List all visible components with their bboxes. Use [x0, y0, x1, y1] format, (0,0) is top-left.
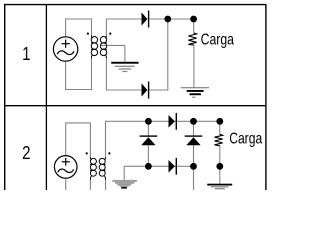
svg-text:Carga: Carga [229, 131, 262, 148]
wire: AC source V1 bottom lead [65, 61, 67, 89]
diode D1 (top, row 1) [142, 11, 150, 28]
ground (load) row 1 [181, 87, 209, 98]
wire: AC source V2 top lead [65, 123, 67, 155]
table column divider [45, 5, 47, 190]
wire: primary top rail row 2 [65, 122, 91, 124]
junction dot top rail middle [190, 118, 197, 125]
secondary winding loops [100, 37, 106, 43]
diode D5 (vertical left, row 2) [140, 135, 158, 145]
ground (middle rail) row 2 [112, 180, 136, 189]
T2 polarity dot left [86, 152, 88, 154]
wire: primary bottom lead down (cropped) [89, 179, 91, 190]
diode D4 (middle rail, row 2) [169, 158, 178, 175]
wire: load middle lead row 2 [219, 146, 221, 167]
wire: primary bottom rail [65, 89, 92, 91]
wire: top rail row 2 [105, 120, 220, 122]
node A junction dot [164, 16, 171, 23]
ground (load) row 2 [207, 184, 232, 190]
wire: secondary top lead up [105, 121, 107, 157]
wire: secondary bottom lead down (cropped) [105, 179, 107, 190]
T2 polarity dot right [108, 152, 110, 154]
junction dot middle rail right [190, 163, 197, 170]
wire: D2 cathode run right [149, 89, 168, 91]
wire: secondary top lead up [105, 19, 107, 36]
svg-text:1: 1 [22, 43, 30, 64]
wire: D1 cathode to node A [149, 18, 193, 20]
AC source V1 row 1 [53, 37, 77, 61]
wire: D6 bottom stub [193, 145, 195, 166]
diode D3 (top rail, row 2) [169, 113, 178, 130]
svg-text:Carga: Carga [201, 32, 235, 49]
junction dot top rail right (load) [216, 118, 223, 125]
secondary winding loops [99, 158, 105, 164]
wire: load top lead [193, 19, 195, 33]
wire: center tap horizontal [101, 44, 125, 46]
wire: middle rail row 2 [124, 165, 193, 167]
wire: D5 bottom stub [147, 145, 149, 166]
wire: load bottom lead to ground [193, 45, 195, 88]
wire: AC source V1 top lead [65, 19, 67, 37]
wire: drop below middle rail right dot (cropped) [193, 166, 195, 190]
diode D6 (vertical right, row 2) [185, 135, 203, 145]
T1 polarity dot left [87, 33, 89, 35]
wire: primary top drop to T1 [91, 19, 93, 36]
wire: load ground lead row 2 [219, 166, 221, 183]
T1 polarity dot right [109, 33, 111, 35]
wire: secondary bottom rail to D2 [106, 89, 142, 91]
AC source V2 row 2 [54, 156, 77, 179]
junction dot middle rail left [145, 163, 152, 170]
diode D2 (bottom, row 1) [142, 82, 150, 99]
resistor Carga row 1 [188, 33, 196, 45]
wire: riser from D2 to node A [167, 19, 169, 91]
wire: AC source V2 bottom lead [65, 178, 67, 190]
wire: secondary bottom lead down [105, 58, 107, 90]
junction dot load bottom row 2 [216, 163, 223, 170]
junction dot top rail left [145, 118, 152, 125]
resistor Carga row 2 [215, 134, 223, 146]
svg-text:2: 2 [22, 142, 30, 163]
wire: secondary top rail to D1 [106, 18, 142, 20]
ground (center tap) row 1 [111, 62, 138, 72]
primary winding loops [91, 37, 97, 43]
node B junction dot (load top) [190, 16, 197, 23]
wire: primary top rail [65, 18, 92, 20]
wire: center tap drop to ground [124, 45, 126, 62]
wire: D5 top stub [147, 121, 149, 135]
wire: D6 top stub [193, 121, 195, 135]
wire: middle rail ground drop [123, 166, 125, 180]
wire: load top lead row 2 [219, 121, 221, 134]
table outer border [5, 5, 266, 190]
transformer T2 row 2 [90, 157, 106, 179]
wire: primary bottom rise to T1 [91, 58, 93, 90]
wire: primary top drop to T2 [89, 123, 91, 158]
transformer T1 row 1 [91, 36, 107, 59]
table row divider [5, 105, 266, 107]
primary winding loops [90, 158, 96, 164]
